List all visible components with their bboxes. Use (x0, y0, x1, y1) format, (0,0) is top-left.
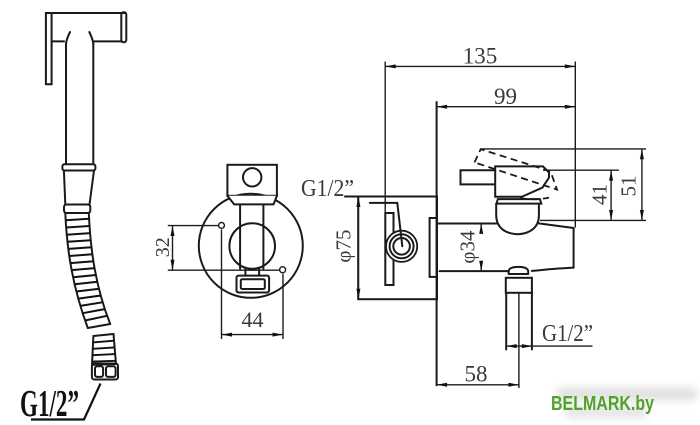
body bottom left (440, 270, 509, 272)
svg-text:32: 32 (152, 237, 174, 257)
FRONT/PROFILE VIEW (385, 44, 646, 389)
dim 41 extension top (543, 169, 619, 171)
hose hex nut (92, 364, 118, 380)
hose left edge (65, 213, 88, 328)
body bottom right (532, 268, 574, 271)
dim 51 extension top (481, 148, 646, 150)
dim 44 extension lines (221, 230, 223, 340)
WALL BRACKET (152, 165, 354, 339)
side lever (370, 203, 403, 246)
SIDE VIEW (332, 197, 438, 300)
dim 135 line (385, 65, 575, 67)
knob circles (386, 231, 417, 262)
sprayer head right cap (121, 12, 126, 42)
sprayer handle (65, 44, 67, 165)
svg-text:φ34: φ34 (456, 230, 480, 264)
svg-text:BELMARK.by: BELMARK.by (551, 392, 654, 415)
outlet neck (244, 269, 246, 276)
svg-text:58: 58 (465, 362, 488, 387)
SPRAYER (20, 12, 126, 425)
connector stub stripes (92, 341, 116, 362)
dim G1/2 arrows at pipe (506, 345, 592, 347)
dims bottom extension (540, 219, 646, 221)
bracket plate circle (199, 194, 303, 298)
taper bottom band (64, 205, 90, 214)
bracket top box (227, 165, 277, 196)
screw hole left (219, 223, 225, 229)
svg-text:99: 99 (494, 84, 517, 109)
dim dia34 arrows (480, 224, 482, 233)
dim 32 line (172, 226, 174, 271)
screw hole right (280, 267, 286, 273)
dim 41 line (610, 170, 612, 220)
dia75 dimension arrows (357, 198, 359, 298)
body top left line (438, 223, 497, 225)
valve dome (496, 204, 539, 235)
holder stem lines (239, 204, 241, 268)
outlet box (237, 276, 270, 293)
handle collar (62, 164, 95, 170)
sprayer head bar (46, 13, 125, 84)
dim 135 extension left (384, 62, 386, 214)
rear protrusion (430, 218, 437, 277)
leader line G1/2 bottom left (31, 384, 101, 420)
svg-text:φ75: φ75 (332, 229, 356, 262)
hose corrugation stripes (66, 219, 108, 321)
outlet pipe (505, 293, 507, 350)
outlet nut (506, 278, 532, 293)
sprayer neck fillets (66, 32, 70, 44)
dim 58 line (437, 384, 519, 386)
hose connector stub (92, 334, 116, 365)
bracket shoulder (227, 196, 277, 205)
dim 99 line (437, 106, 576, 108)
solid lever arm (461, 170, 495, 184)
holder ring inner circle (229, 223, 275, 269)
dim 44 line (222, 334, 284, 336)
solid handle body (495, 166, 549, 196)
dashed rotated handle (475, 149, 558, 199)
bonnet (497, 199, 542, 204)
svg-text:41: 41 (587, 184, 611, 205)
dim 135/99 extension right (574, 62, 576, 228)
body top right line (539, 223, 574, 228)
svg-text:G1/2”: G1/2” (542, 321, 593, 347)
svg-text:51: 51 (617, 176, 641, 197)
body right end (573, 228, 575, 268)
hose end (88, 324, 110, 328)
watermark smudge (556, 387, 698, 419)
hose right edge (89, 213, 110, 324)
bracket top hole (243, 168, 261, 186)
svg-text:44: 44 (242, 307, 264, 332)
cartridge bar (385, 213, 393, 285)
side plate rectangle (358, 197, 437, 300)
leader line under label (345, 196, 358, 198)
dim 51 line (641, 149, 643, 221)
svg-text:G1/2”: G1/2” (301, 176, 354, 202)
svg-text:135: 135 (463, 44, 498, 69)
taper cone (64, 171, 65, 205)
wall plate edge line (436, 102, 438, 385)
dim 32 extension lines (168, 225, 219, 227)
svg-text:G1/2”: G1/2” (20, 383, 79, 425)
outlet dome (509, 267, 529, 274)
dim 58 extension right (518, 293, 520, 388)
